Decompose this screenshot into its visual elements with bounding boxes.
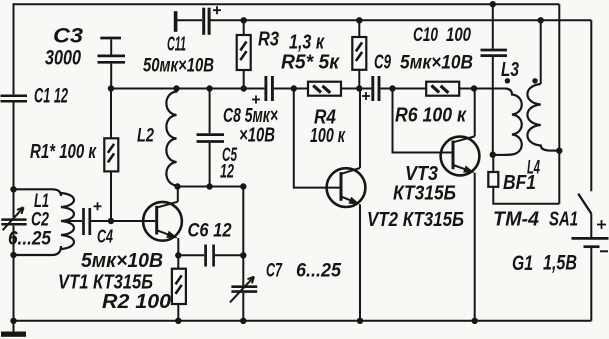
node ground corner — [10, 318, 16, 324]
capacitor C2 variable — [1, 207, 26, 230]
capacitor C9 — [362, 76, 379, 101]
node X corner — [240, 183, 246, 189]
svg-text:R5* 5к: R5* 5к — [281, 51, 341, 74]
node L4 bottom — [556, 148, 562, 154]
wire C6 to riser — [215, 254, 243, 256]
capacitor C11 — [176, 6, 221, 35]
transistor VT1 — [143, 202, 182, 241]
svg-text:R2 100: R2 100 — [102, 290, 172, 313]
node R4 left — [291, 85, 297, 91]
svg-text:6...25: 6...25 — [296, 260, 342, 282]
svg-text:3000: 3000 — [45, 46, 81, 70]
svg-text:C10: C10 — [413, 25, 438, 46]
inductor L1 — [14, 189, 74, 255]
resistor R6 — [426, 82, 459, 96]
svg-text:C6 12: C6 12 — [188, 220, 232, 242]
capacitor C1 — [1, 96, 28, 101]
node C10 top — [490, 1, 496, 7]
wire R6 right to L3 — [459, 88, 505, 90]
inductor L2 — [166, 89, 176, 187]
svg-text:R6 100 к: R6 100 к — [395, 105, 467, 127]
wire rail B right down — [590, 20, 592, 191]
svg-text:VT2 КТ315Б: VT2 КТ315Б — [367, 208, 464, 231]
svg-text:R1* 100 к: R1* 100 к — [30, 141, 97, 163]
switch SA1 — [578, 194, 591, 237]
transistor VT2 — [327, 168, 366, 207]
resistor R4 — [308, 82, 341, 96]
svg-text:12: 12 — [220, 162, 234, 183]
node R5 top — [356, 17, 362, 23]
node R6 left — [389, 85, 395, 91]
wire left rail upper — [13, 3, 15, 94]
wire emitter to C6 — [178, 254, 204, 256]
node R5 bottom — [356, 85, 362, 91]
wire L1 tap to C4 — [61, 220, 82, 222]
wire bottom rail — [14, 320, 592, 322]
svg-text:КТ315Б: КТ315Б — [393, 183, 456, 205]
node L4 polarity dot — [532, 78, 537, 83]
svg-text:1,5В: 1,5В — [543, 252, 577, 275]
svg-text:L4: L4 — [527, 158, 540, 179]
svg-text:C9: C9 — [374, 51, 391, 74]
wire C9 to R6 — [381, 88, 427, 90]
svg-text:L2: L2 — [137, 125, 154, 147]
wire VT3 emitter down — [474, 173, 476, 321]
node tank bottom — [10, 252, 16, 258]
node L2 top — [173, 85, 179, 91]
wire C4 to VT1 base — [91, 220, 155, 222]
wire node X horizontal — [177, 186, 244, 188]
node C3 R1 rail — [108, 85, 114, 91]
node R3 top — [241, 17, 247, 23]
wire main rail left part — [111, 88, 264, 90]
resistor R1 — [104, 89, 118, 222]
wire top frame — [13, 3, 560, 5]
svg-text:R3: R3 — [258, 28, 279, 51]
svg-text:5мк×10В: 5мк×10В — [81, 249, 163, 272]
inductor L3 — [495, 89, 522, 155]
svg-text:50мк×10В: 50мк×10В — [143, 55, 214, 77]
svg-text:5мк×10В: 5мк×10В — [400, 52, 473, 74]
svg-text:100: 100 — [446, 25, 471, 46]
svg-text:C7: C7 — [266, 260, 283, 282]
node VT2 emitter bottom — [357, 318, 363, 324]
wire left rail middle — [13, 103, 15, 218]
wire R4 to C9 — [341, 88, 371, 90]
svg-text:C1 12: C1 12 — [34, 84, 68, 108]
capacitor C4 — [84, 202, 102, 235]
node L4 top — [538, 17, 544, 23]
svg-text:SA1: SA1 — [549, 208, 578, 231]
wire rail B — [211, 19, 592, 21]
node emitter — [175, 252, 181, 258]
capacitor C5 — [197, 89, 225, 187]
node C5 bottom — [206, 183, 212, 189]
capacitor C10 — [481, 4, 508, 155]
svg-text:ТМ-4: ТМ-4 — [493, 208, 540, 231]
capacitor C8 — [252, 76, 272, 104]
svg-text:C3: C3 — [53, 24, 83, 48]
capacitor C3 — [98, 38, 126, 89]
wire C8 to R4 — [274, 88, 308, 90]
node R1 bottom — [108, 218, 114, 224]
resistor R5 — [352, 20, 366, 88]
wire VT2 collector riser — [359, 89, 361, 169]
svg-text:×10В: ×10В — [239, 125, 275, 147]
wire X corner down — [242, 187, 244, 286]
node L3 polarity dot — [505, 78, 510, 83]
wire VT1 emitter riser — [177, 238, 179, 255]
svg-text:G1: G1 — [512, 252, 533, 275]
node R3 bottom — [241, 85, 247, 91]
svg-text:6...25: 6...25 — [8, 228, 52, 250]
wire frame right down — [558, 4, 560, 204]
node VT3 emitter bottom — [472, 318, 478, 324]
node C6 right — [240, 252, 246, 258]
svg-text:100 к: 100 к — [310, 125, 346, 147]
node R6 right — [471, 85, 477, 91]
wire VT3 collector riser — [474, 89, 476, 137]
inductor L4 — [527, 20, 559, 150]
ground — [1, 321, 26, 337]
resistor R2 — [172, 255, 186, 320]
svg-text:L3: L3 — [501, 59, 519, 81]
battery G1 — [572, 220, 609, 321]
resistor R3 — [237, 20, 251, 88]
wire VT3 base loop — [393, 89, 452, 153]
capacitor C7 variable — [230, 277, 257, 321]
wire left rail lower — [13, 226, 15, 321]
node C7 bottom — [240, 318, 246, 324]
svg-text:L1: L1 — [34, 191, 49, 212]
transistor VT3 — [441, 136, 480, 175]
headphone BF1 — [488, 155, 559, 204]
node L3 bottom — [490, 152, 496, 158]
wire VT2 base loop — [294, 89, 340, 188]
wire VT1 collector riser — [177, 187, 179, 202]
node X collector — [174, 183, 180, 189]
capacitor C6 — [206, 245, 214, 267]
node R2 bottom — [175, 318, 181, 324]
svg-text:C11: C11 — [167, 33, 186, 56]
node tank top — [10, 186, 16, 192]
node C5 top — [206, 85, 212, 91]
svg-text:C4: C4 — [97, 226, 113, 247]
wire VT2 emitter down — [359, 204, 361, 320]
